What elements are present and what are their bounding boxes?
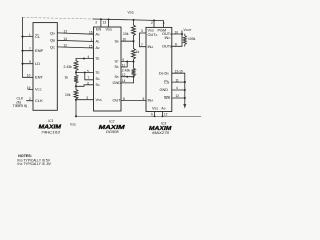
svg-text:2: 2 — [151, 21, 153, 25]
svg-text:CS: CS — [164, 80, 170, 84]
svg-text:1: 1 — [91, 38, 93, 42]
svg-text:VSS: VSS — [96, 98, 102, 102]
svg-text:QA: QA — [50, 30, 55, 35]
svg-text:EN: EN — [96, 28, 102, 32]
svg-text:16: 16 — [27, 86, 31, 90]
svg-text:VCC: VCC — [35, 87, 42, 92]
svg-text:11: 11 — [122, 63, 126, 67]
svg-text:2.43k: 2.43k — [64, 65, 73, 69]
svg-text:13: 13 — [103, 21, 107, 25]
svg-text:4: 4 — [163, 21, 165, 25]
svg-text:A2: A2 — [96, 46, 101, 50]
svg-text:6: 6 — [151, 113, 153, 117]
svg-text:12: 12 — [122, 73, 126, 77]
svg-text:OUTB: OUTB — [162, 44, 172, 48]
svg-text:DG508: DG508 — [106, 130, 119, 134]
svg-text:4: 4 — [176, 86, 178, 90]
svg-text:S3: S3 — [96, 83, 101, 87]
svg-text:A0: A0 — [161, 107, 166, 111]
svg-text:D0-D6: D0-D6 — [159, 71, 169, 75]
svg-text:10: 10 — [175, 30, 179, 34]
svg-text:OUT: OUT — [113, 99, 122, 103]
svg-text:14: 14 — [122, 79, 126, 83]
svg-text:11: 11 — [176, 78, 180, 82]
svg-text:S7: S7 — [115, 60, 120, 64]
svg-text:7: 7 — [88, 76, 90, 80]
svg-text:4: 4 — [88, 55, 90, 59]
svg-text:10: 10 — [123, 38, 127, 42]
svg-text:74HC163: 74HC163 — [41, 130, 60, 134]
svg-text:10: 10 — [27, 74, 31, 78]
svg-text:10k: 10k — [65, 93, 71, 97]
svg-text:13: 13 — [64, 29, 68, 33]
svg-text:INA: INA — [148, 45, 154, 49]
svg-text:9: 9 — [122, 58, 124, 62]
svg-text:8: 8 — [175, 43, 177, 47]
svg-text:WR: WR — [164, 96, 171, 100]
svg-text:2: 2 — [29, 97, 31, 101]
svg-text:7: 7 — [29, 47, 31, 51]
svg-text:VDD: VDD — [128, 11, 134, 15]
svg-text:12: 12 — [164, 113, 168, 117]
svg-text:ENT: ENT — [35, 75, 44, 80]
svg-text:12: 12 — [176, 94, 180, 98]
svg-text:GND: GND — [160, 88, 169, 92]
svg-text:INC: INC — [165, 36, 171, 40]
svg-text:1: 1 — [29, 33, 31, 37]
svg-text:S1: S1 — [96, 57, 101, 61]
svg-text:16: 16 — [89, 31, 93, 35]
svg-text:S2: S2 — [96, 71, 101, 75]
svg-text:5: 5 — [143, 97, 145, 101]
svg-text:2.43k: 2.43k — [122, 69, 131, 73]
svg-text:A1: A1 — [96, 40, 101, 44]
svg-text:7: 7 — [141, 43, 143, 47]
svg-text:ENP: ENP — [35, 48, 44, 53]
svg-text:5: 5 — [87, 69, 89, 73]
svg-text:15: 15 — [89, 44, 93, 48]
svg-text:INA: INA — [148, 99, 154, 103]
svg-text:100k: 100k — [188, 37, 196, 41]
svg-text:MAX270: MAX270 — [152, 131, 169, 135]
svg-text:10k: 10k — [123, 32, 129, 36]
svg-text:VSS: VSS — [70, 123, 76, 127]
svg-text:S6: S6 — [115, 65, 120, 69]
svg-text:3: 3 — [86, 96, 88, 100]
svg-text:S8: S8 — [115, 39, 120, 43]
svg-text:CLK: CLK — [35, 98, 43, 103]
svg-text:VSS: VSS — [152, 107, 158, 111]
svg-text:IC1: IC1 — [48, 119, 53, 123]
svg-text:1k: 1k — [65, 75, 69, 79]
svg-text:12: 12 — [64, 43, 68, 47]
svg-text:8: 8 — [123, 97, 125, 101]
svg-text:6: 6 — [87, 81, 89, 85]
svg-text:TIMES 8): TIMES 8) — [13, 104, 27, 108]
svg-text:S5: S5 — [115, 75, 120, 79]
svg-text:14: 14 — [64, 37, 68, 41]
svg-text:LD: LD — [35, 61, 40, 66]
svg-text:VSS TYPICALLY IS -5V: VSS TYPICALLY IS -5V — [17, 162, 52, 166]
svg-text:2: 2 — [95, 21, 97, 25]
svg-text:9: 9 — [29, 60, 31, 64]
svg-text:IC2: IC2 — [109, 120, 114, 124]
svg-text:OUTA: OUTA — [148, 33, 158, 37]
svg-text:13-19: 13-19 — [175, 69, 183, 73]
svg-text:S4: S4 — [96, 77, 101, 81]
svg-text:GND: GND — [113, 81, 122, 85]
svg-text:A0: A0 — [96, 32, 101, 36]
svg-text:QB: QB — [50, 38, 55, 43]
svg-text:QC: QC — [50, 44, 55, 49]
svg-text:VOUT: VOUT — [184, 28, 192, 32]
svg-text:VDD: VDD — [106, 28, 112, 32]
svg-text:3: 3 — [141, 29, 143, 33]
svg-text:1k: 1k — [136, 50, 140, 54]
